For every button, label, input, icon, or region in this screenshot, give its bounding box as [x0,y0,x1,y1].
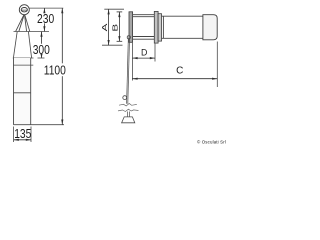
dimension C [132,78,217,80]
staff mid taper edges [13,32,31,59]
lanyard ring [123,96,127,100]
drain plug body [122,117,135,123]
collar line at cone base [14,31,50,33]
svg-text:C: C [176,65,183,76]
barrel weld ring [162,16,164,38]
lanyard eyelet on plate [127,36,130,39]
top extension line from ball [29,7,63,9]
svg-text:1100: 1100 [44,62,66,78]
svg-text:A: A [101,23,109,31]
socket barrel tube [162,16,203,38]
svg-text:B: B [112,24,120,32]
dimension 1100 [61,8,63,125]
svg-text:D: D [141,47,147,57]
C right extension line (from cap end) [216,42,218,88]
pole bottom line + extension toward 1100 dim [14,124,65,126]
extension lines for 135 [13,127,15,143]
dimension A [108,9,110,45]
pole section joint lower [14,92,31,94]
step ring [158,14,161,41]
dimension D [132,57,155,59]
dimension 300 [40,32,42,58]
dimension 135 [14,139,31,141]
staff conical top (taper lines) [16,15,30,32]
svg-text:300: 300 [33,42,51,58]
socket neck tube (between plate and collar) [133,15,155,40]
collar flange [154,11,158,43]
svg-text:© Osculati Srl: © Osculati Srl [197,140,226,145]
svg-text:135: 135 [14,126,32,142]
pole section joint upper [14,64,34,66]
mounting plate (flange) [129,12,133,43]
drain plug stem [127,112,129,117]
D right extension line (from collar) [154,44,156,62]
dimension 230 [43,8,45,31]
extension line bottom (for A) [102,44,123,46]
lanyard cord [127,39,130,104]
lower pole body [14,58,31,125]
svg-text:230: 230 [37,11,55,27]
break squiggle upper [119,104,137,106]
joint line / extension at staff shoulder [13,57,34,59]
extension line top (for A) [104,8,124,10]
ball truck on staff top [19,5,29,15]
break squiggle lower [118,109,139,111]
end cap [203,15,217,40]
dimension B [117,12,123,41]
D/C left extension line (from plate face) [131,43,133,81]
